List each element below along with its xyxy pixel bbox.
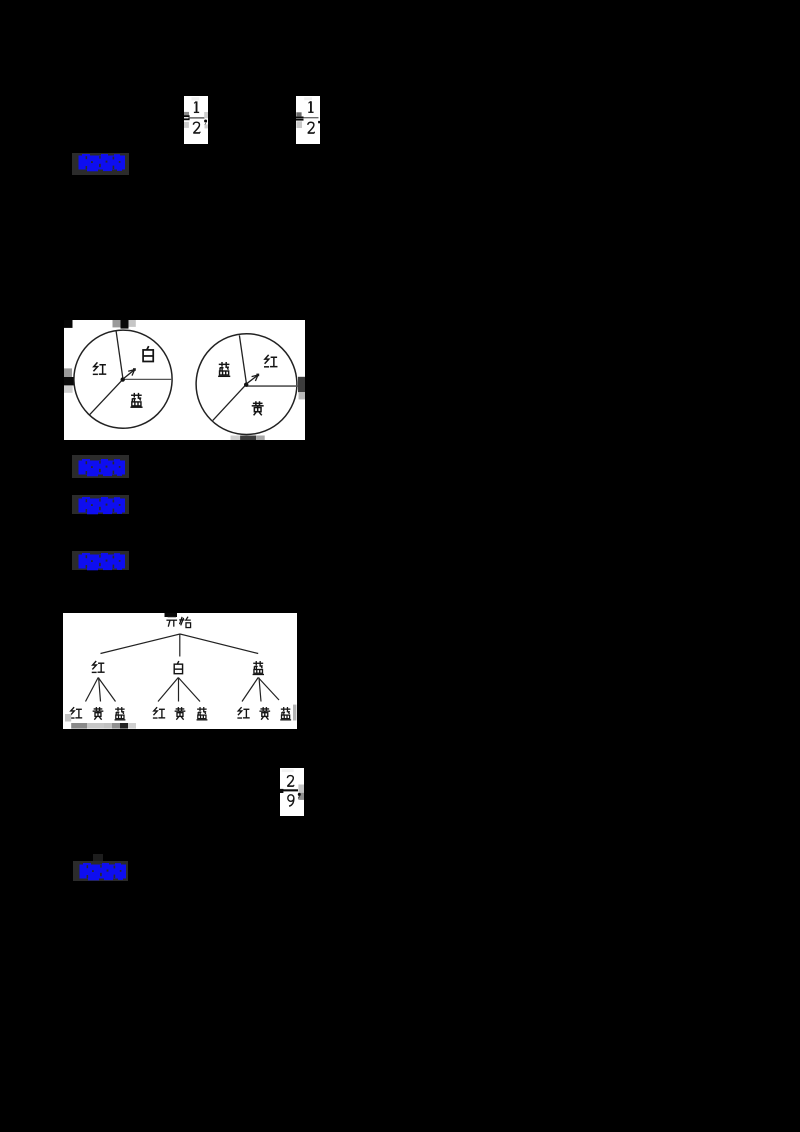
selection handle top-left corner	[64, 320, 73, 328]
left spinner hub	[120, 377, 124, 381]
right label hong2	[263, 355, 276, 367]
right spinner circle	[196, 333, 297, 434]
leaf row left: hong huang lan	[70, 707, 82, 718]
right edge sliver	[293, 704, 296, 720]
bottom-left handle row	[71, 723, 87, 729]
left spinner radius to top	[116, 330, 123, 379]
left field marks with = sign	[184, 112, 189, 117]
selection handle top cluster	[112, 320, 120, 327]
right spinner arrow	[246, 375, 257, 383]
label dianping 2	[73, 861, 128, 881]
left spinner radius to lower-left	[89, 379, 123, 415]
leaf row middle: hong huang lan	[153, 707, 165, 718]
level1 bai	[174, 661, 182, 674]
left spinner circle	[73, 330, 171, 428]
denominator 9	[288, 794, 294, 805]
left edge notch	[65, 714, 71, 722]
level1 hong	[92, 660, 105, 671]
label jieda	[72, 551, 129, 570]
fraction bar	[303, 117, 318, 118]
right field marks	[298, 784, 304, 791]
left label bai	[143, 346, 153, 361]
tree diagram image	[63, 613, 297, 729]
left label lan2	[130, 392, 142, 406]
fraction bar	[281, 789, 298, 791]
spinner image	[64, 320, 305, 440]
selection handle bottom cluster	[230, 435, 240, 440]
root branch lines	[101, 634, 259, 657]
right label huang	[251, 401, 263, 415]
fraction bar	[188, 117, 204, 118]
selection handle left cluster	[64, 368, 72, 377]
label kaodian	[72, 455, 129, 478]
right spinner radius to top	[239, 335, 246, 384]
denominator 2	[308, 122, 315, 133]
selection handle right	[298, 376, 305, 391]
right spinner radius to right	[246, 385, 305, 387]
right comma mark	[318, 121, 320, 123]
right spinner hub	[244, 382, 248, 386]
left spinner arrow	[123, 370, 134, 379]
right spinner radius to lower-left	[212, 384, 246, 420]
label dianping 1	[72, 153, 129, 175]
fraction 1/2 image (first)	[184, 96, 208, 144]
root word kai-shi	[166, 616, 177, 626]
level1 lan	[253, 661, 264, 674]
fan lines left	[86, 677, 116, 701]
label fenxi	[72, 495, 129, 514]
right field marks with comma	[204, 112, 208, 118]
numerator 2	[287, 775, 294, 786]
denominator 2	[193, 122, 200, 133]
fan lines middle	[158, 677, 200, 701]
left spinner radius to right	[123, 378, 172, 380]
small notch above label	[93, 854, 103, 861]
left label hong	[92, 362, 105, 374]
fraction 2/9 image	[280, 768, 304, 816]
fraction 1/2 image (second)	[296, 96, 320, 144]
fan lines right	[242, 677, 279, 701]
numerator 1	[194, 101, 199, 112]
leaf row right: hong huang lan	[237, 707, 249, 718]
shared CJK glyph defs	[0, 0, 1, 1]
left field marks with = sign	[296, 112, 301, 116]
right label lan	[218, 362, 230, 376]
top-center selection handle	[165, 613, 178, 617]
numerator 1	[308, 101, 313, 112]
